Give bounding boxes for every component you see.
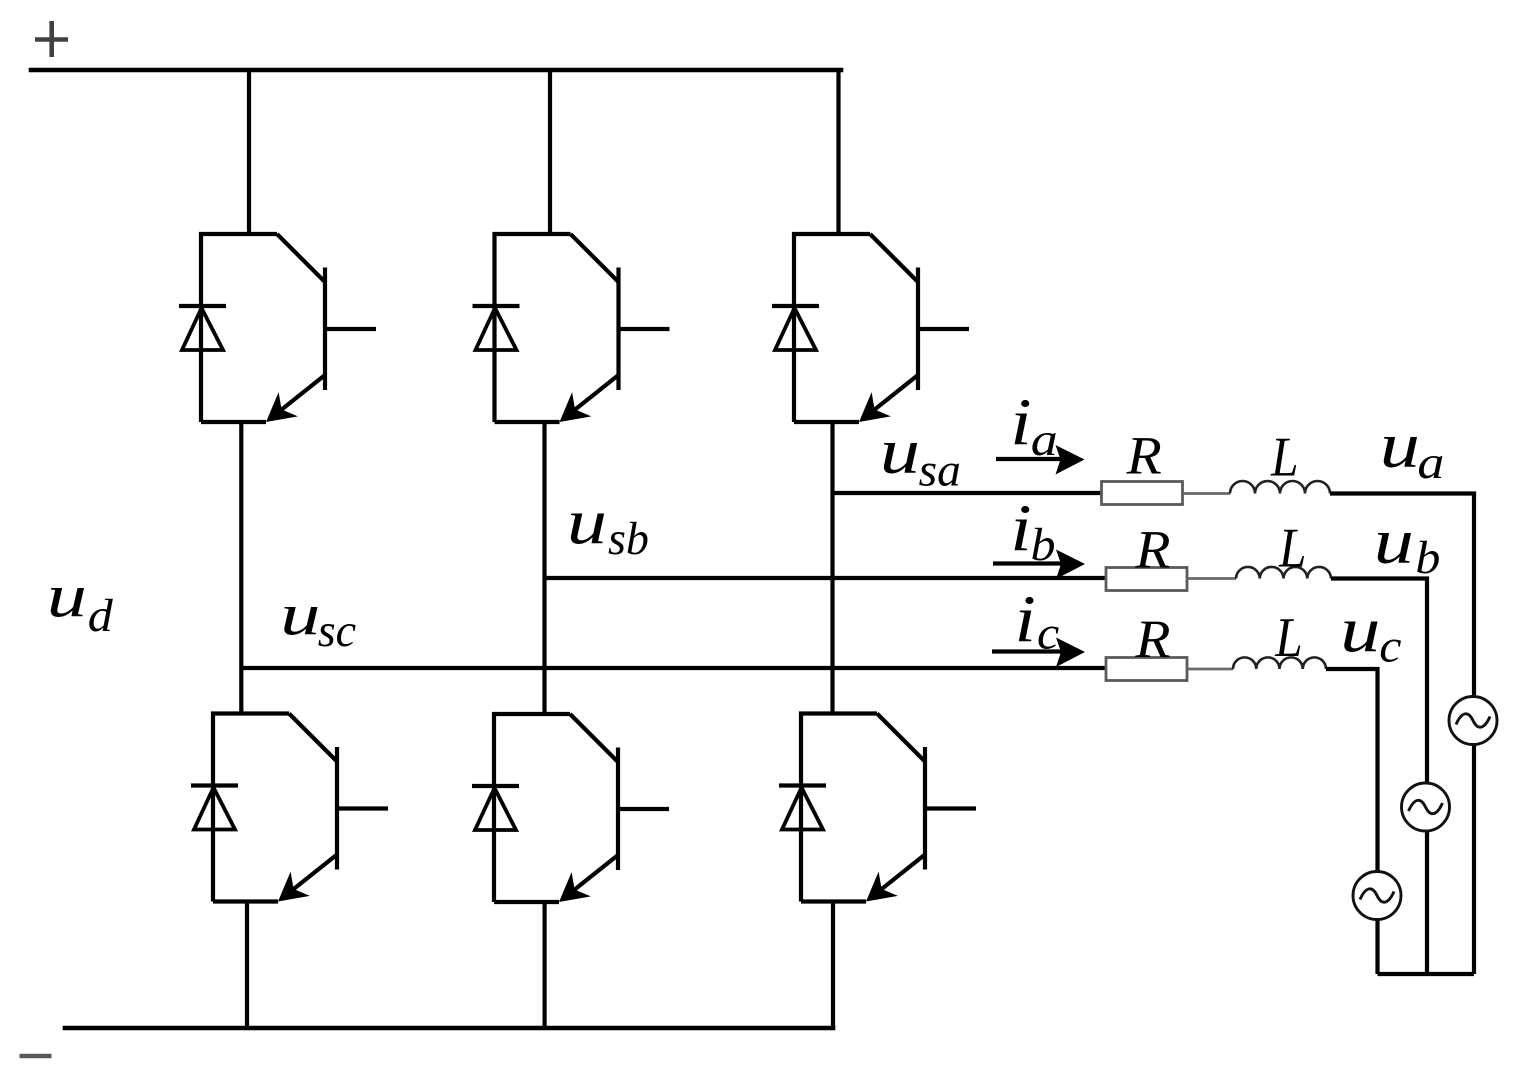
svg-text:a: a [1417, 436, 1444, 488]
svg-text:u: u [47, 563, 87, 631]
svg-text:u: u [280, 582, 320, 648]
svg-text:R: R [1134, 609, 1170, 669]
svg-text:sc: sc [318, 606, 357, 657]
svg-text:L: L [1278, 517, 1306, 579]
svg-text:u: u [1374, 505, 1414, 577]
svg-text:i: i [1010, 385, 1031, 459]
svg-text:c: c [1037, 608, 1059, 659]
svg-text:sb: sb [608, 514, 649, 565]
svg-text:u: u [1380, 409, 1420, 481]
svg-text:sa: sa [919, 445, 961, 496]
svg-text:u: u [880, 415, 920, 487]
svg-text:b: b [1415, 533, 1440, 584]
svg-text:L: L [1270, 426, 1298, 488]
svg-text:u: u [567, 485, 607, 557]
svg-text:b: b [1031, 520, 1056, 571]
svg-text:a: a [1031, 413, 1058, 465]
svg-text:R: R [1134, 520, 1170, 580]
svg-text:u: u [1340, 593, 1380, 665]
svg-text:c: c [1379, 621, 1401, 672]
svg-text:L: L [1274, 607, 1302, 669]
svg-text:i: i [1015, 582, 1036, 656]
svg-text:R: R [1126, 426, 1162, 486]
svg-text:i: i [1010, 491, 1031, 565]
svg-text:d: d [88, 590, 114, 641]
